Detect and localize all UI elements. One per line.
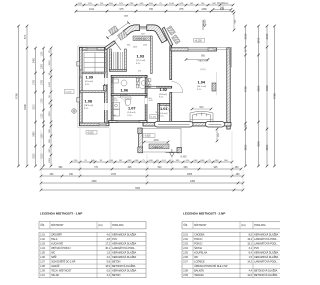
svg-text:+2,650: +2,650 (204, 19, 207, 27)
doormat rohozka (133, 36, 152, 41)
svg-text:900: 900 (201, 54, 206, 57)
pilaster 2 (77, 98, 80, 103)
svg-text:3650: 3650 (244, 144, 248, 150)
wall hall west x158 (158, 104, 160, 123)
marker circle west (72, 109, 77, 114)
doormat 3 (167, 26, 176, 35)
svg-text:(m²): (m²) (98, 224, 103, 227)
svg-text:OBÝVACÍ POKOJ: OBÝVACÍ POKOJ (51, 247, 71, 250)
svg-text:ŠATNA: ŠATNA (194, 247, 202, 250)
svg-text:6760: 6760 (244, 86, 248, 92)
svg-text:(1,20): (1,20) (66, 92, 72, 94)
wire dimension chain v x=43.5 (41, 47, 45, 168)
svg-text:PODLAHA: PODLAHA (112, 224, 124, 227)
svg-text:SCHODIŠTĚ DO 2.NP: SCHODIŠTĚ DO 2.NP (51, 261, 76, 264)
wall diagonal east of entry (162, 27, 173, 46)
svg-text:KERAMICKÁ DLAŽBA: KERAMICKÁ DLAŽBA (254, 256, 278, 259)
svg-text:1970: 1970 (114, 100, 118, 102)
svg-text:HALA: HALA (51, 238, 58, 241)
wire dimension chain v x=51 (49, 47, 53, 168)
mini vdim right (233, 12, 237, 32)
svg-text:KERAMICKÁ DLAŽBA: KERAMICKÁ DLAŽBA (112, 256, 136, 259)
svg-text:2450: 2450 (33, 131, 35, 137)
svg-text:17,2: 17,2 (105, 242, 110, 245)
svg-text:2.08: 2.08 (183, 270, 188, 273)
svg-text:9760: 9760 (273, 93, 277, 99)
elevation marker (166, 149, 179, 157)
svg-text:BALKÓN: BALKÓN (194, 270, 204, 273)
wire dimension chain v x=35.5 (33, 47, 37, 168)
svg-text:1450: 1450 (201, 8, 207, 11)
svg-text:K.DL.: K.DL. (120, 97, 125, 99)
svg-text:WC: WC (194, 256, 198, 259)
svg-text:1.10: 1.10 (40, 274, 45, 277)
dim sofa 900 (191, 106, 213, 111)
svg-text:30,1: 30,1 (105, 247, 110, 250)
wall hall west x151 (151, 36, 153, 74)
node room 1.06 label (120, 87, 129, 98)
svg-text:1670: 1670 (111, 174, 117, 176)
svg-text:475: 475 (138, 71, 141, 73)
svg-text:1.09: 1.09 (40, 270, 45, 273)
wire dimension chain v x=18.5 (14, 25, 20, 168)
elevation marker top (203, 20, 206, 30)
fixture sink small (112, 78, 140, 87)
svg-text:9760: 9760 (14, 93, 18, 99)
svg-text:PVC: PVC (112, 238, 117, 241)
svg-text:LAMINÁTOVÁ PODL.: LAMINÁTOVÁ PODL. (254, 242, 278, 245)
svg-text:2010: 2010 (265, 33, 269, 39)
svg-text:2.03: 2.03 (183, 242, 188, 245)
svg-text:(30,1 m2): (30,1 m2) (197, 86, 207, 88)
svg-text:TVAROVKY: TVAROVKY (152, 146, 164, 149)
svg-text:6690: 6690 (257, 85, 261, 91)
svg-text:KERAMICKÁ DLAŽBA: KERAMICKÁ DLAŽBA (112, 270, 136, 273)
svg-text:LEGENDA MÍSTNOSTÍ - 2.NP: LEGENDA MÍSTNOSTÍ - 2.NP (183, 211, 225, 216)
svg-text:1.01: 1.01 (40, 233, 45, 236)
svg-text:MÍSTNOST: MÍSTNOST (194, 224, 207, 227)
svg-text:CHODBA: CHODBA (194, 233, 205, 236)
table LEGENDA MÍSTNOSTÍ - 2.NP (182, 211, 287, 278)
svg-text:1780: 1780 (33, 79, 35, 85)
small tag 1.05b (194, 39, 205, 43)
node room 1.01 label (159, 106, 168, 117)
svg-text:BETON: BETON (112, 274, 120, 277)
fixture wc (117, 97, 131, 106)
wire dimension chain v x=258.5 (257, 25, 261, 168)
wire dimension chain v x=274.5 (273, 25, 277, 168)
svg-text:KERAMICKÁ DLAŽBA: KERAMICKÁ DLAŽBA (112, 251, 136, 254)
svg-text:1950: 1950 (41, 133, 43, 139)
svg-text:-0,450: -0,450 (180, 157, 187, 159)
svg-text:TECH. MÍSTNOST: TECH. MÍSTNOST (51, 270, 72, 273)
window W1 left-block top (87, 47, 97, 51)
window W4 right-top (188, 47, 208, 51)
svg-text:1730: 1730 (41, 98, 43, 104)
svg-text:ČÍS.: ČÍS. (40, 224, 45, 227)
svg-text:1780: 1780 (41, 79, 43, 85)
svg-text:(17,2 m2): (17,2 m2) (136, 60, 146, 62)
wall right top (171, 48, 217, 51)
svg-text:PODLAHA: PODLAHA (254, 224, 266, 227)
svg-text:(2,0 m2): (2,0 m2) (120, 94, 128, 96)
svg-text:1800: 1800 (153, 139, 159, 142)
dim 787 diagonal (106, 15, 129, 39)
wire dimension chain h y=5 (75, 3, 235, 7)
wall left-block west (80, 48, 83, 126)
svg-text:12,6: 12,6 (247, 274, 252, 277)
svg-text:BETONOVÁ DLAŽBA: BETONOVÁ DLAŽBA (112, 265, 136, 268)
svg-text:(4,6 m2): (4,6 m2) (159, 113, 167, 115)
svg-text:900: 900 (199, 106, 204, 109)
svg-text:POKOJ: POKOJ (194, 242, 203, 245)
door leaf entry (115, 42, 121, 50)
svg-text:2.06: 2.06 (183, 256, 188, 259)
svg-text:1.08: 1.08 (40, 265, 45, 268)
svg-text:TVAROVKY: TVAROVKY (197, 59, 209, 62)
svg-text:LAMINÁTOVÁ PODL.: LAMINÁTOVÁ PODL. (254, 261, 278, 264)
svg-text:(m²): (m²) (241, 224, 246, 227)
kitchen shelves grid (84, 53, 106, 73)
window pill large (155, 121, 194, 127)
svg-text:LOŽNICE: LOŽNICE (194, 261, 205, 264)
svg-text:2.01: 2.01 (183, 233, 188, 236)
wall kitchen-hall y87 (145, 86, 172, 88)
wire dimension chain h y=176 (40, 174, 245, 178)
svg-text:9190: 9190 (23, 104, 27, 110)
wall bay pier west (123, 25, 139, 36)
wall hall divider y104 (158, 104, 172, 106)
svg-text:4340: 4340 (257, 141, 261, 147)
label tag (1.05) (143, 134, 155, 138)
svg-text:2480: 2480 (91, 181, 97, 183)
doormat 2 (118, 31, 128, 41)
svg-text:BETONOVÁ DLAŽBA: BETONOVÁ DLAŽBA (254, 274, 278, 277)
wall diagonal west upper part (123, 32, 128, 37)
svg-text:1550: 1550 (49, 111, 51, 117)
furniture sofa (190, 111, 213, 122)
terrace inner dim (143, 139, 170, 144)
wall right bottom (143, 122, 231, 126)
wall mid-block bottom (109, 121, 148, 123)
svg-text:-0,020: -0,020 (144, 136, 151, 138)
wire dimension chain h y=162 (70, 160, 234, 164)
door gap mid east (145, 98, 147, 104)
svg-text:2870: 2870 (257, 37, 261, 43)
window mid bottom (117, 120, 139, 123)
wall left-block east (105, 48, 108, 126)
wall left-block top (80, 48, 108, 51)
fixture washer (113, 103, 120, 117)
svg-text:KUCHYNĚ: KUCHYNĚ (51, 242, 63, 245)
wall mid-block divider (111, 94, 147, 96)
svg-text:2.05: 2.05 (183, 251, 188, 254)
svg-text:787: 787 (124, 15, 129, 18)
wire dimension chain v x=267 (265, 25, 269, 168)
svg-text:1100: 1100 (143, 45, 147, 47)
svg-text:(1,05): (1,05) (200, 69, 206, 71)
svg-text:14,2: 14,2 (247, 261, 252, 264)
wall hall-living north part (170, 46, 172, 80)
wall mid-block top (111, 76, 147, 78)
svg-text:1510: 1510 (49, 60, 51, 66)
terrace corner block 3 (177, 148, 182, 153)
svg-text:1.02: 1.02 (160, 87, 168, 92)
svg-text:346: 346 (220, 8, 225, 11)
wire dimension chain v x=245.5 (244, 25, 248, 168)
svg-text:K.DL.: K.DL. (127, 115, 132, 117)
wall pier left-block east (103, 85, 106, 91)
wall diagonal west of entry (105, 41, 116, 50)
small tag left (65, 90, 75, 94)
svg-text:1.07: 1.07 (128, 106, 136, 111)
door gap 1.09 (104, 78, 107, 84)
svg-text:1050: 1050 (49, 157, 51, 163)
svg-text:K.DL.: K.DL. (159, 97, 164, 99)
svg-text:570: 570 (23, 34, 27, 39)
terrace corner block 1 (138, 128, 142, 134)
wall hall-living south part (170, 93, 172, 123)
svg-text:18,9: 18,9 (105, 265, 110, 268)
svg-text:1011: 1011 (89, 8, 95, 11)
svg-text:K.DL.: K.DL. (159, 116, 164, 118)
column living room (212, 83, 216, 91)
svg-text:ČÍS.: ČÍS. (183, 224, 188, 227)
svg-text:1970: 1970 (149, 100, 153, 102)
svg-text:1.09: 1.09 (86, 75, 94, 80)
window W2 west (79, 70, 83, 77)
terrace south outline (139, 129, 182, 153)
node room 1.02 label (159, 87, 168, 98)
door swing 1.01 (163, 105, 170, 112)
svg-text:K.DL.: K.DL. (136, 63, 141, 65)
door size labels bay (127, 45, 147, 49)
door swing 1.04 (172, 82, 183, 93)
door tags (114, 98, 158, 114)
svg-text:LAMINÁTOVÁ PODL.: LAMINÁTOVÁ PODL. (254, 238, 278, 241)
wall right east (227, 48, 230, 129)
svg-text:ZÁDVEŘÍ: ZÁDVEŘÍ (51, 233, 62, 236)
dim 346 (212, 6, 233, 11)
svg-text:(4,8 m2): (4,8 m2) (159, 94, 167, 96)
wall interior y73 (82, 72, 105, 74)
stairs treads (112, 52, 123, 69)
svg-text:PVC: PVC (254, 247, 259, 250)
svg-text:2055: 2055 (187, 174, 193, 176)
svg-text:KERAMICKÁ DLAŽBA: KERAMICKÁ DLAŽBA (112, 233, 136, 236)
svg-text:1.04: 1.04 (198, 80, 206, 85)
door gap 1.08 (104, 103, 107, 110)
dim 900 window (185, 54, 210, 71)
wall left-block bottom (80, 123, 110, 126)
tag 1.01 floor (150, 115, 159, 119)
svg-text:2030: 2030 (41, 153, 43, 159)
wall interior y92 (80, 91, 105, 93)
wall bay pier east (147, 25, 167, 43)
svg-text:900: 900 (127, 45, 130, 47)
wire dimension chain v x=27 (23, 25, 29, 168)
svg-text:875: 875 (180, 8, 185, 11)
svg-text:K.DL.: K.DL. (84, 108, 89, 110)
svg-text:(5,8 m2): (5,8 m2) (127, 112, 135, 114)
svg-text:SKLAD: SKLAD (51, 274, 59, 277)
svg-text:760: 760 (149, 8, 154, 11)
svg-text:2.02: 2.02 (183, 238, 188, 241)
extension lines (41, 127, 243, 191)
svg-text:1250: 1250 (41, 63, 43, 69)
svg-text:POKOJ: POKOJ (194, 238, 203, 241)
svg-text:LAMINÁTOVÁ PODL.: LAMINÁTOVÁ PODL. (112, 247, 136, 250)
svg-text:KOUPELNA: KOUPELNA (194, 251, 207, 254)
svg-text:BETONOVÁ DLAŽBA: BETONOVÁ DLAŽBA (254, 270, 278, 273)
window pill small (206, 121, 225, 127)
terrace NE outline (211, 48, 232, 68)
pilaster (77, 62, 80, 67)
node room 1.09 label (85, 75, 94, 86)
svg-text:2.09: 2.09 (183, 274, 188, 277)
svg-text:1.06: 1.06 (40, 256, 45, 259)
svg-text:19,2: 19,2 (247, 238, 252, 241)
eave outline left block (78, 46, 109, 128)
svg-text:TERASA: TERASA (194, 274, 204, 277)
wall mid-block east (145, 76, 147, 123)
svg-text:1.04: 1.04 (40, 247, 45, 250)
svg-text:1.05: 1.05 (40, 251, 45, 254)
terrace paving strip (149, 144, 169, 149)
svg-text:KERAMICKÁ DLAŽBA: KERAMICKÁ DLAŽBA (254, 251, 278, 254)
svg-text:GARÁŽ: GARÁŽ (51, 265, 60, 268)
node room 1.07 label (127, 106, 135, 117)
doormat 1 (109, 26, 119, 36)
furniture round table (136, 77, 151, 89)
wire dimension chain h y=183 (40, 181, 245, 185)
svg-text:KERAMICKÁ DLAŽBA: KERAMICKÁ DLAŽBA (112, 242, 136, 245)
svg-text:8150: 8150 (265, 85, 269, 91)
svg-text:2.04: 2.04 (183, 247, 188, 250)
node room 1.08 label (84, 99, 94, 110)
svg-text:1.03: 1.03 (137, 54, 145, 59)
svg-text:(1,05): (1,05) (151, 117, 157, 119)
svg-text:(18,9 m2): (18,9 m2) (84, 105, 94, 107)
svg-text:MÍSTNOST: MÍSTNOST (51, 224, 64, 227)
thin line living (215, 72, 217, 95)
svg-text:2450: 2450 (33, 57, 35, 63)
svg-text:ÚPRAVA POVRCHŮ DLE 2.NP: ÚPRAVA POVRCHŮ DLE 2.NP (194, 265, 228, 268)
svg-text:2.07: 2.07 (183, 261, 188, 264)
doormat 4 (172, 35, 181, 44)
svg-text:1.02: 1.02 (40, 238, 45, 241)
small tag bottom-left (86, 131, 97, 135)
wire dimension chain h y=190 (40, 188, 245, 192)
door gap hall (150, 87, 156, 88)
window bay entrance door (140, 26, 147, 29)
svg-text:1130: 1130 (41, 51, 43, 57)
window W3 left-block bottom (99, 122, 106, 126)
svg-text:WC: WC (51, 251, 55, 254)
svg-text:BETON: BETON (112, 261, 120, 264)
svg-text:2450: 2450 (190, 181, 196, 183)
svg-text:K.DL.: K.DL. (85, 84, 90, 86)
svg-text:15,1: 15,1 (247, 242, 252, 245)
svg-text:1.03: 1.03 (40, 242, 45, 245)
svg-text:(6,5 m2): (6,5 m2) (85, 81, 93, 83)
svg-text:K.DL.: K.DL. (197, 89, 202, 91)
svg-text:1.01: 1.01 (160, 106, 168, 111)
terrace west wall (139, 129, 143, 153)
svg-text:975: 975 (120, 8, 125, 11)
wire dimension chain h y=11.2 (75, 8, 235, 13)
node room 1.03 label (136, 54, 146, 65)
wall under stair (110, 69, 127, 71)
mini vdim pill (216, 128, 220, 143)
svg-text:7900: 7900 (135, 188, 141, 190)
svg-text:1130: 1130 (41, 113, 43, 119)
svg-text:1470: 1470 (49, 81, 51, 87)
svg-text:2010: 2010 (244, 33, 248, 39)
svg-text:2030: 2030 (33, 153, 35, 159)
svg-text:1.07: 1.07 (40, 261, 45, 264)
svg-text:2020: 2020 (133, 47, 137, 49)
table LEGENDA MÍSTNOSTÍ - 1.NP (39, 211, 146, 278)
wall mid-block west (111, 76, 113, 123)
terrace corner block 2 (138, 147, 143, 153)
wall stair east x125 (125, 49, 127, 71)
svg-text:-0,020: -0,020 (87, 132, 94, 134)
svg-text:1.06: 1.06 (121, 87, 129, 92)
wire dimension chain h y=169 (40, 167, 243, 171)
svg-text:ROHOŽ 600: ROHOŽ 600 (136, 38, 147, 41)
svg-text:1010: 1010 (169, 3, 175, 5)
svg-text:+0,150: +0,150 (195, 40, 203, 42)
svg-text:SPÍŽ: SPÍŽ (51, 256, 57, 259)
svg-text:1.08: 1.08 (85, 99, 93, 104)
svg-text:3010: 3010 (33, 104, 35, 110)
wall stair west x110 (110, 49, 112, 71)
svg-text:70: 70 (155, 112, 157, 114)
node room 1.04 label (197, 80, 207, 91)
svg-text:3650: 3650 (265, 144, 269, 150)
svg-text:KERAMICKÁ DLAŽBA: KERAMICKÁ DLAŽBA (254, 233, 278, 236)
svg-text:LEGENDA MÍSTNOSTÍ - 1.NP: LEGENDA MÍSTNOSTÍ - 1.NP (40, 211, 82, 216)
